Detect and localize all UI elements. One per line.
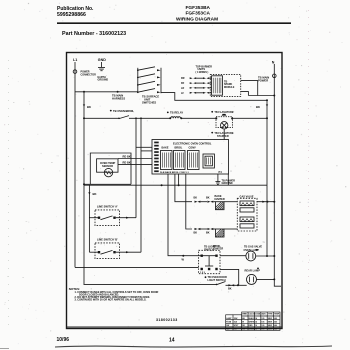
wire valve to N <box>257 201 274 203</box>
EOC box <box>152 140 229 175</box>
connector BK on bus <box>83 105 85 107</box>
earth ground symbol <box>98 67 105 69</box>
switch SW2 <box>138 74 155 78</box>
line switch A stub <box>89 217 99 219</box>
wire rear lamp to N <box>257 278 275 280</box>
broil valve coil 1 <box>240 217 254 222</box>
EOC display <box>203 154 214 168</box>
svg-text:105: 105 <box>261 325 264 327</box>
line switch B dashed box <box>95 243 120 259</box>
wire burner row 2 <box>196 82 203 84</box>
svg-text:LAMP: LAMP <box>226 317 232 320</box>
relay label <box>167 112 169 114</box>
svg-text:SENSOR: SENSOR <box>102 164 113 168</box>
switch oven broil <box>119 116 129 119</box>
svg-text:600: 600 <box>274 325 277 327</box>
svg-text:TB OVEN/BROIL: TB OVEN/BROIL <box>113 109 134 113</box>
wire EOC drop b <box>227 174 229 185</box>
wire sensor to EOC 2 <box>118 164 152 166</box>
svg-text:TB RELAY: TB RELAY <box>170 111 183 115</box>
wire line switch feeder <box>88 185 90 252</box>
svg-text:SW: SW <box>226 325 229 327</box>
wire EOC to bake row <box>175 174 192 202</box>
light switch internals <box>199 255 217 257</box>
wire module out upper <box>241 81 258 96</box>
broil igniter <box>216 229 225 237</box>
surface unit switch bank left rail <box>137 68 139 93</box>
wire sensor box bottom to BK bus <box>84 183 131 185</box>
svg-text:L1: L1 <box>73 58 77 62</box>
svg-text:SEW: SEW <box>268 321 272 323</box>
diagram frame <box>67 53 283 329</box>
node right bus junction <box>266 99 268 101</box>
wire L1 bus <box>74 62 76 267</box>
wire from switch bank to BK feeder <box>161 93 267 101</box>
legend table header text <box>226 312 280 330</box>
BK terminal on feeder <box>88 192 90 194</box>
svg-text:LF: LF <box>181 92 184 95</box>
svg-text:DLB BAKE BROIL CONV L1: DLB BAKE BROIL CONV L1 <box>160 171 190 174</box>
flashtube starter circle <box>221 122 228 129</box>
wire BK bus vertical <box>83 92 85 285</box>
svg-text:14: 14 <box>255 317 257 320</box>
svg-text:16: 16 <box>255 325 257 327</box>
svg-text:GND: GND <box>98 58 106 62</box>
svg-text:TEMP: TEMP <box>274 313 280 315</box>
bake igniter <box>216 202 225 210</box>
switch SW1 <box>138 67 155 70</box>
sensor resistor circle <box>104 168 112 176</box>
svg-text:HARNESS: HARNESS <box>112 96 125 100</box>
wire relay to flashtube <box>181 117 217 119</box>
wire burner row 3 <box>196 87 203 89</box>
node main harness junction <box>117 91 119 93</box>
broil row connector 2 <box>207 228 210 230</box>
bake row connector 1 <box>195 201 198 203</box>
svg-text:600: 600 <box>274 329 277 331</box>
svg-text:W: W <box>242 321 244 323</box>
wire broil igniter to valve <box>224 228 237 230</box>
wire N bus <box>274 64 281 286</box>
relay coil <box>171 117 181 119</box>
wire module out lower <box>241 92 249 96</box>
svg-text:LR: LR <box>181 87 184 90</box>
svg-text:BK: BK <box>93 192 97 196</box>
flashtube starter label <box>211 132 213 134</box>
svg-text:ELECTRONIC OVEN CONTROL: ELECTRONIC OVEN CONTROL <box>173 141 212 145</box>
svg-text:GROUND: GROUND <box>98 79 109 82</box>
svg-text:SEW: SEW <box>268 318 272 320</box>
svg-text:BK: BK <box>194 231 198 234</box>
wire right bus <box>266 100 268 255</box>
wire EOC to light switch <box>168 174 199 256</box>
wire EOC to broil row <box>186 174 192 229</box>
spark module box <box>212 76 223 95</box>
svg-text:RF: RF <box>181 82 185 85</box>
svg-text:CODE: CODE <box>255 313 261 315</box>
footer scan line <box>55 346 332 347</box>
wire oven lamp to N <box>256 255 275 257</box>
wire EOC left stubs <box>136 146 152 148</box>
switch door light <box>217 282 226 285</box>
svg-text:BROIL: BROIL <box>175 146 183 149</box>
line switch A contact <box>101 216 113 220</box>
sensor outer box <box>90 153 131 184</box>
svg-text:14: 14 <box>169 338 175 344</box>
svg-text:TB FLASHTUBE: TB FLASHTUBE <box>214 111 233 114</box>
svg-text:CONV: CONV <box>189 146 197 149</box>
burner row 4 connectors <box>190 92 210 94</box>
ground wire stub <box>101 62 103 67</box>
svg-text:SWITCHES: SWITCHES <box>142 100 156 104</box>
svg-text:P4: P4 <box>219 170 223 174</box>
svg-text:316: 316 <box>234 329 237 331</box>
svg-text:LIGHT SWITCH: LIGHT SWITCH <box>208 279 226 282</box>
svg-text:SWITCH: SWITCH <box>204 248 214 251</box>
svg-text:BK: BK <box>194 197 198 200</box>
svg-text:AWG: AWG <box>261 312 266 315</box>
lamp rear <box>247 274 257 284</box>
wire to relay <box>129 117 170 119</box>
svg-text:BK: BK <box>256 105 260 109</box>
svg-text:FUSE: FUSE <box>226 321 232 323</box>
svg-text:MODULE: MODULE <box>224 86 235 89</box>
svg-text:14: 14 <box>255 320 257 323</box>
svg-text:BAKE: BAKE <box>162 146 169 149</box>
EOC chassis ground drop <box>217 174 219 182</box>
broil valve coil 2 <box>240 224 254 228</box>
sensor inner box <box>97 159 118 172</box>
svg-text:3. CONTINUED WITH 30 OR NOT A: 3. CONTINUED WITH 30 OR NOT AMPERE ON AL… <box>75 299 147 302</box>
svg-text:105: 105 <box>261 321 264 323</box>
svg-text:16: 16 <box>255 329 257 331</box>
svg-text:BK: BK <box>228 287 232 290</box>
wire flashtube to EOC <box>223 129 225 140</box>
wire EOC drop a <box>178 174 180 185</box>
burner row 3 connectors <box>190 87 210 89</box>
oven broil label <box>110 110 112 112</box>
svg-text:CONNECTOR: CONNECTOR <box>81 73 97 76</box>
header rule <box>57 22 291 24</box>
svg-text:( 4 WIRES ): ( 4 WIRES ) <box>196 71 209 74</box>
bake row connector 2 <box>207 201 210 203</box>
wire flashtube to right bus <box>232 117 267 119</box>
svg-text:318002133: 318002133 <box>156 318 178 322</box>
svg-text:600: 600 <box>274 321 277 323</box>
wire oven broil row <box>84 117 119 119</box>
scan noise left margin <box>8 60 10 330</box>
surface unit switch bank right rail <box>160 68 162 93</box>
light switch dashed box <box>199 250 220 273</box>
svg-text:FGF353BA: FGF353BA <box>186 5 211 11</box>
lamp oven <box>246 251 256 261</box>
switch SW4 <box>138 89 155 93</box>
line switch A dashed box <box>95 210 120 226</box>
svg-text:STARTER: STARTER <box>217 135 229 138</box>
svg-text:15W: 15W <box>234 318 238 320</box>
power connector circle L1 <box>73 70 77 74</box>
wire mid distribution line <box>84 184 267 186</box>
switch SW3 <box>138 81 155 85</box>
svg-text:600: 600 <box>274 318 277 320</box>
wire collect to N <box>248 95 274 97</box>
line switch B contact <box>101 250 113 254</box>
svg-text:W: W <box>182 258 185 262</box>
wire light switch to oven lamp <box>220 255 246 257</box>
svg-text:BK: BK <box>87 105 91 109</box>
svg-text:SEW: SEW <box>268 325 272 327</box>
legend table grid <box>226 312 280 330</box>
svg-text:POWER: POWER <box>258 79 268 83</box>
svg-text:Part Number - 316002123: Part Number - 316002123 <box>62 31 126 37</box>
svg-text:GROUND: GROUND <box>222 182 233 185</box>
line switch A terminals <box>98 217 100 219</box>
broil row connector 1 <box>195 228 198 230</box>
wire sensor to EOC 1 <box>118 158 152 160</box>
svg-text:10/96: 10/96 <box>57 337 70 343</box>
svg-text:RR: RR <box>181 77 185 80</box>
gas valve dashed box <box>237 198 257 231</box>
wire burner row 1 <box>196 77 203 79</box>
svg-text:RD BK: RD BK <box>123 154 131 158</box>
svg-text:BK: BK <box>206 197 210 200</box>
wire L1 to light switch <box>75 266 199 268</box>
svg-text:5995298866: 5995298866 <box>57 12 86 18</box>
svg-text:SEW: SEW <box>268 329 272 331</box>
burner row 2 connectors <box>190 82 210 84</box>
wire drop to line switch A <box>135 118 137 217</box>
svg-text:WIRING DIAGRAM: WIRING DIAGRAM <box>176 17 218 23</box>
flashtube dashed box <box>216 117 232 128</box>
wire line switch A out <box>116 217 136 219</box>
node relay right <box>180 117 182 119</box>
wire burner row 4 <box>196 92 203 94</box>
svg-text:N: N <box>272 60 275 64</box>
svg-text:BK: BK <box>206 231 210 234</box>
bake valve coil 2 <box>240 208 254 212</box>
svg-text:WIRE: WIRE <box>242 313 247 315</box>
svg-text:1 2 3: 1 2 3 <box>200 272 206 274</box>
svg-text:TYPE: TYPE <box>268 313 273 315</box>
wire light switch lower out <box>220 269 239 285</box>
svg-text:105: 105 <box>261 318 264 320</box>
scan noise right margin <box>308 10 310 332</box>
wire BK to door switch <box>84 283 217 285</box>
flashtube terminals <box>215 118 217 120</box>
svg-text:IGNITER: IGNITER <box>215 198 225 201</box>
line switch B terminals <box>98 251 100 253</box>
wire igniter to valve <box>224 201 237 203</box>
power connector circle N <box>273 74 277 78</box>
burner row 1 connectors <box>190 77 210 79</box>
svg-text:105: 105 <box>261 329 264 331</box>
svg-text:FGF353CA: FGF353CA <box>186 11 211 17</box>
footer corner mark <box>0 348 9 350</box>
wire main harness horizontal <box>75 91 138 93</box>
svg-text:LINE SWITCH 'B': LINE SWITCH 'B' <box>97 237 118 241</box>
node relay left <box>169 117 171 119</box>
spark module dashed enclosure <box>210 75 240 97</box>
svg-text:LINE SWITCH 'A': LINE SWITCH 'A' <box>97 204 118 208</box>
wire drop to line switch B <box>140 118 142 252</box>
wire line switch B out <box>116 251 141 253</box>
line switch B stub <box>89 251 99 253</box>
flashtube lamp label <box>211 111 213 113</box>
bake valve coil 1 <box>240 201 254 206</box>
svg-text:15A: 15A <box>234 320 238 323</box>
node BK tap on main wire <box>83 91 85 93</box>
wire door switch to rear lamp <box>226 284 247 286</box>
svg-text:RD BK: RD BK <box>123 161 131 165</box>
EOC terminal strip <box>154 142 159 172</box>
